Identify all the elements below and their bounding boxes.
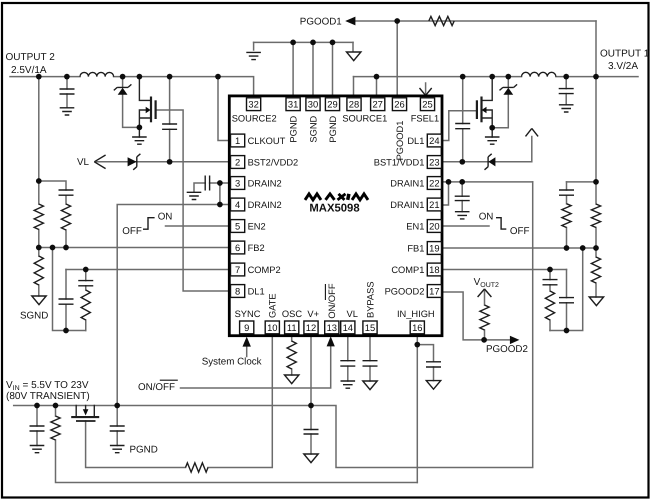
svg-text:3: 3 <box>235 177 240 188</box>
svg-text:BST1/VDD1: BST1/VDD1 <box>374 157 425 167</box>
svg-text:BST2/VDD2: BST2/VDD2 <box>248 157 299 167</box>
svg-text:SOURCE1: SOURCE1 <box>342 113 387 123</box>
svg-text:OFF: OFF <box>510 226 530 237</box>
svg-text:PGOOD2: PGOOD2 <box>486 344 528 355</box>
svg-text:8: 8 <box>235 285 240 296</box>
svg-text:3.V/2A: 3.V/2A <box>608 61 638 72</box>
svg-text:DRAIN2: DRAIN2 <box>248 178 282 188</box>
svg-text:PGOOD1: PGOOD1 <box>300 17 342 28</box>
svg-text:12: 12 <box>306 322 316 333</box>
svg-text:VL: VL <box>77 157 90 168</box>
svg-text:6: 6 <box>235 242 240 253</box>
svg-text:18: 18 <box>429 264 439 275</box>
svg-text:29: 29 <box>327 99 337 110</box>
svg-text:V+: V+ <box>307 309 319 319</box>
svg-text:PGND: PGND <box>130 444 158 455</box>
svg-text:PGND: PGND <box>328 115 338 142</box>
svg-text:14: 14 <box>343 322 353 333</box>
svg-text:DRAIN2: DRAIN2 <box>248 200 282 210</box>
svg-text:19: 19 <box>429 242 439 253</box>
svg-text:PGOOD2: PGOOD2 <box>385 286 425 296</box>
svg-text:ON: ON <box>158 212 173 223</box>
svg-text:4: 4 <box>235 199 240 210</box>
svg-text:IN_HIGH: IN_HIGH <box>397 309 435 319</box>
svg-text:BYPASS: BYPASS <box>365 281 375 318</box>
svg-text:ON/OFF: ON/OFF <box>138 382 175 393</box>
svg-text:10: 10 <box>267 322 277 333</box>
svg-text:DL1: DL1 <box>248 286 265 296</box>
svg-text:GATE: GATE <box>268 293 278 318</box>
svg-text:9: 9 <box>244 322 249 333</box>
svg-text:PGOOD1: PGOOD1 <box>395 121 405 161</box>
svg-text:25: 25 <box>422 99 432 110</box>
svg-text:ON: ON <box>479 212 494 223</box>
svg-text:ON/OFF: ON/OFF <box>327 283 337 318</box>
svg-text:CLKOUT: CLKOUT <box>248 136 286 146</box>
svg-text:COMP2: COMP2 <box>248 265 281 275</box>
svg-text:PGND: PGND <box>288 115 298 142</box>
svg-text:2: 2 <box>235 156 240 167</box>
svg-text:27: 27 <box>372 99 382 110</box>
svg-text:2.5V/1A: 2.5V/1A <box>11 65 47 76</box>
svg-text:OUTPUT 2: OUTPUT 2 <box>6 52 56 63</box>
svg-text:OFF: OFF <box>122 226 142 237</box>
svg-text:FSEL1: FSEL1 <box>411 113 439 123</box>
svg-text:17: 17 <box>429 285 439 296</box>
svg-text:30: 30 <box>308 99 318 110</box>
svg-text:SYNC: SYNC <box>235 309 261 319</box>
svg-text:EN1: EN1 <box>406 221 424 231</box>
svg-text:OUTPUT 1: OUTPUT 1 <box>600 49 650 60</box>
svg-text:EN2: EN2 <box>248 221 266 231</box>
svg-text:COMP1: COMP1 <box>391 265 424 275</box>
svg-text:16: 16 <box>412 322 422 333</box>
svg-text:VL: VL <box>347 309 358 319</box>
svg-text:DL1: DL1 <box>407 136 424 146</box>
svg-text:20: 20 <box>429 220 439 231</box>
svg-text:23: 23 <box>429 156 439 167</box>
svg-text:5: 5 <box>235 220 240 231</box>
svg-text:21: 21 <box>429 199 439 210</box>
svg-text:24: 24 <box>429 135 439 146</box>
svg-text:SGND: SGND <box>308 115 318 142</box>
svg-text:FB2: FB2 <box>248 243 265 253</box>
svg-text:SGND: SGND <box>20 311 48 322</box>
svg-text:SOURCE2: SOURCE2 <box>232 113 277 123</box>
svg-text:MAX5098: MAX5098 <box>309 203 359 215</box>
svg-text:DRAIN1: DRAIN1 <box>390 178 424 188</box>
svg-text:15: 15 <box>365 322 375 333</box>
svg-text:DRAIN1: DRAIN1 <box>390 200 424 210</box>
svg-text:System Clock: System Clock <box>202 357 262 368</box>
svg-text:11: 11 <box>287 322 297 333</box>
svg-text:28: 28 <box>349 99 359 110</box>
svg-text:FB1: FB1 <box>407 243 424 253</box>
svg-text:OSC: OSC <box>282 309 302 319</box>
svg-text:13: 13 <box>327 322 337 333</box>
svg-text:(80V TRANSIENT): (80V TRANSIENT) <box>6 391 90 402</box>
svg-text:7: 7 <box>235 264 240 275</box>
svg-text:31: 31 <box>288 99 298 110</box>
svg-text:32: 32 <box>248 99 258 110</box>
svg-text:22: 22 <box>429 177 439 188</box>
svg-text:26: 26 <box>394 99 404 110</box>
svg-text:1: 1 <box>235 135 240 146</box>
